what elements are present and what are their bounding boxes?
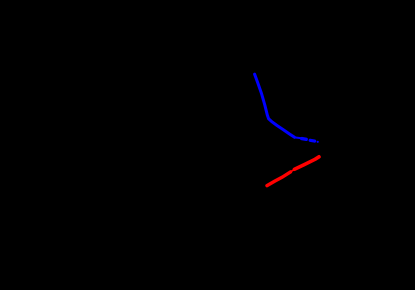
blue tail speck [317, 141, 319, 143]
blue curve (steep decaying stroke) [255, 74, 295, 137]
red line left part [267, 172, 291, 186]
blue tail blob 2 [310, 139, 314, 143]
blue tail blob 1 [302, 137, 306, 141]
red line pinch connector [291, 169, 295, 172]
blue curve tail segment [295, 136, 302, 139]
red line right part [295, 157, 320, 170]
